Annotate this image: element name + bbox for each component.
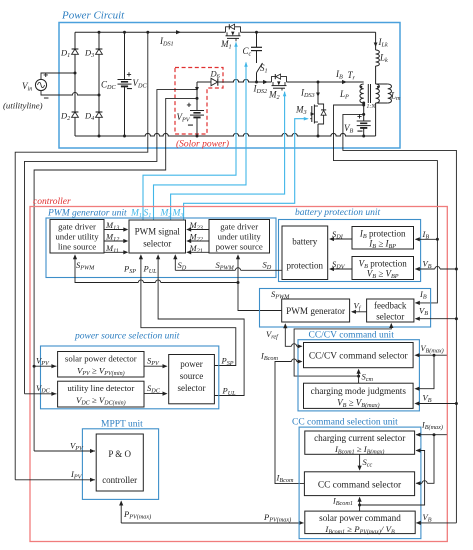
AC source V_in (utility line) xyxy=(35,79,46,90)
svg-text:selector: selector xyxy=(143,239,171,249)
wire I_B input to IB protection xyxy=(416,238,438,240)
svg-text:solar power detector: solar power detector xyxy=(65,354,137,364)
svg-text:+: + xyxy=(357,111,362,121)
wire VDC sense staircase to left rail xyxy=(15,32,148,480)
wire V_PV to P&O xyxy=(34,450,95,452)
solar power dashed red box xyxy=(175,68,223,135)
current arrow I_B xyxy=(342,80,347,84)
magnetizing inductor L_m xyxy=(376,83,388,85)
signal I_Bcom1 net xyxy=(359,498,361,512)
wire mid rail D6 to M2 to transformer xyxy=(218,79,272,82)
VB protection box xyxy=(352,257,414,280)
svg-text:P & O: P & O xyxy=(108,449,131,459)
svg-text:utility line detector: utility line detector xyxy=(67,383,134,393)
svg-text:power: power xyxy=(180,359,203,369)
signal S_cc xyxy=(359,454,361,469)
wire transformer bottom to rail xyxy=(375,103,377,136)
battery protection box xyxy=(282,226,328,280)
svg-text:charging current selector: charging current selector xyxy=(314,433,405,443)
signals M23 M22 M21 xyxy=(188,229,210,231)
CC command selection unit box xyxy=(299,427,421,538)
capacitor C_DC / V_DC battery xyxy=(124,32,126,79)
signal S_cm xyxy=(358,370,360,383)
signal I_Bcom to CC/CV selector xyxy=(275,362,304,484)
node dots bridge xyxy=(98,31,101,34)
svg-text:CC/CV command unit: CC/CV command unit xyxy=(309,331,395,341)
PWM generator box xyxy=(282,299,350,322)
diode D4 xyxy=(96,112,103,117)
wire IPV sense staircase xyxy=(25,90,198,394)
svg-text:(Solor power): (Solor power) xyxy=(176,139,229,150)
signal S_PV xyxy=(144,365,167,367)
wire VPV sense staircase xyxy=(34,98,197,451)
signal S_DV xyxy=(330,268,352,270)
transformer core xyxy=(367,84,369,103)
power circuit boundary box xyxy=(59,23,400,149)
wire V_B input to feedback selector xyxy=(416,318,457,320)
svg-text:battery protection unit: battery protection unit xyxy=(295,208,380,218)
wire V_PV input xyxy=(33,365,36,368)
wire top rail (DC bus +) xyxy=(75,31,226,33)
svg-text:CC command selector: CC command selector xyxy=(318,481,402,491)
controller boundary box (red) xyxy=(30,207,447,542)
inductor L_k and current I_Lk xyxy=(375,32,377,50)
signal S_DI xyxy=(330,238,352,240)
svg-text:gate driver: gate driver xyxy=(220,222,258,232)
charging mode judgments box xyxy=(304,383,414,408)
power source selection unit box xyxy=(41,346,219,409)
svg-text:selector: selector xyxy=(178,383,206,393)
wire I_B sense to right rail xyxy=(334,105,438,303)
feedback selector box xyxy=(367,299,414,322)
gate driver under utility power source box xyxy=(209,220,270,254)
signal V_f xyxy=(352,311,367,313)
signal S_cm branch to feedback selector bottom xyxy=(294,324,391,376)
charging current selector box xyxy=(305,431,415,454)
svg-text:MPPT unit: MPPT unit xyxy=(101,420,143,430)
PWM generator / feedback selector unit box xyxy=(260,289,431,328)
svg-text:+: + xyxy=(187,100,192,110)
svg-text:charging mode judgments: charging mode judgments xyxy=(311,386,407,396)
svg-text:Power Circuit: Power Circuit xyxy=(61,10,125,22)
signal S_DC xyxy=(144,393,167,395)
gate wire M1 (cyan) xyxy=(143,43,236,221)
capacitor C_c xyxy=(256,32,258,47)
solar battery V_PV xyxy=(196,82,198,111)
MPPT unit box xyxy=(82,429,158,500)
svg-text:power source selection unit: power source selection unit xyxy=(74,332,180,342)
PWM generator unit box xyxy=(46,218,276,278)
signal P_UL riser xyxy=(158,256,244,396)
wire V_DC input xyxy=(25,393,57,395)
svg-text:−: − xyxy=(357,127,363,138)
P and O controller box xyxy=(96,434,143,491)
diode bridge branch 2 xyxy=(98,32,100,136)
svg-text:+: + xyxy=(127,69,132,79)
MOSFET M3 with body diode xyxy=(317,82,319,104)
svg-text:(utilityline): (utilityline) xyxy=(3,101,43,111)
current arrow I_DS2 xyxy=(263,80,268,84)
svg-text:PWM generator unit: PWM generator unit xyxy=(47,209,127,219)
svg-text:solar power command: solar power command xyxy=(319,513,401,523)
svg-text:CC/CV command selector: CC/CV command selector xyxy=(309,352,409,362)
signal V_B(max) input xyxy=(416,354,447,356)
IB protection box xyxy=(352,227,414,250)
signal I_B(max) input xyxy=(416,434,447,436)
battery protection unit box xyxy=(279,220,421,282)
CC/CV command selector box xyxy=(304,343,414,368)
svg-text:selector: selector xyxy=(376,312,404,322)
svg-text:protection: protection xyxy=(287,261,324,271)
solar power command box xyxy=(305,511,415,533)
diode D1 xyxy=(72,49,79,54)
diode D_6 xyxy=(197,81,211,83)
wire V_B sense to far right rail xyxy=(343,114,457,523)
wire bottom rail (DC bus -) xyxy=(75,133,376,136)
gate driver under utility line source box xyxy=(50,220,104,254)
solar power detector box xyxy=(58,352,144,378)
svg-text:source: source xyxy=(180,371,204,381)
signal P_PV(max) xyxy=(120,502,122,524)
svg-text:+: + xyxy=(43,70,48,80)
wire V_B input to VB protection xyxy=(416,268,457,270)
signals M13 M12 M11 xyxy=(104,229,127,231)
signal V_ref to PWM generator and CC/CV selector xyxy=(285,324,301,346)
signal P_SP riser xyxy=(141,256,236,366)
diode D2 xyxy=(72,112,79,117)
svg-text:line source: line source xyxy=(58,242,96,252)
svg-text:under utility: under utility xyxy=(55,232,99,242)
CC/CV command unit box xyxy=(298,340,419,411)
svg-text:PWM generator: PWM generator xyxy=(286,306,345,316)
diode D3 xyxy=(96,49,103,54)
PWM signal selector box xyxy=(129,220,186,253)
svg-text:CC command selection unit: CC command selection unit xyxy=(292,418,398,428)
svg-text:PWM signal: PWM signal xyxy=(135,227,181,237)
gate wire M3 (cyan) xyxy=(184,119,308,220)
utility line detector box xyxy=(58,381,144,407)
svg-text:−: − xyxy=(44,93,49,103)
wire I_PV to P&O xyxy=(15,479,95,481)
svg-text:battery: battery xyxy=(292,237,317,247)
MOSFET M2 with body diode xyxy=(272,77,287,82)
wire V_B input to judgments xyxy=(416,403,457,405)
signal SPWM from PWM generator to gate drivers xyxy=(238,256,282,311)
svg-text:controller: controller xyxy=(102,475,137,485)
svg-text:gate driver: gate driver xyxy=(58,222,96,232)
svg-text:feedback: feedback xyxy=(374,301,407,311)
transformer secondary winding xyxy=(376,84,380,103)
svg-text:1:N: 1:N xyxy=(367,104,377,110)
svg-text:under utility: under utility xyxy=(218,232,262,242)
signal SD from battery protection to PWM signal selector xyxy=(175,269,282,271)
gate wire S1 (cyan) xyxy=(154,63,247,221)
svg-text:power source: power source xyxy=(216,242,263,252)
current arrow I_DS1 xyxy=(176,30,181,34)
wire Vin to bridge xyxy=(41,73,75,79)
gate wire M2 (cyan) xyxy=(171,92,285,220)
battery V_B xyxy=(363,103,365,121)
wire V_B input to solar power command xyxy=(416,522,456,524)
diode bridge branch 1 xyxy=(74,32,76,136)
MOSFET M1 with body diode xyxy=(226,27,241,32)
switch S1 xyxy=(257,63,263,73)
svg-text:controller: controller xyxy=(33,197,71,207)
CC command selector box xyxy=(304,472,414,496)
power source selector box xyxy=(169,355,215,404)
